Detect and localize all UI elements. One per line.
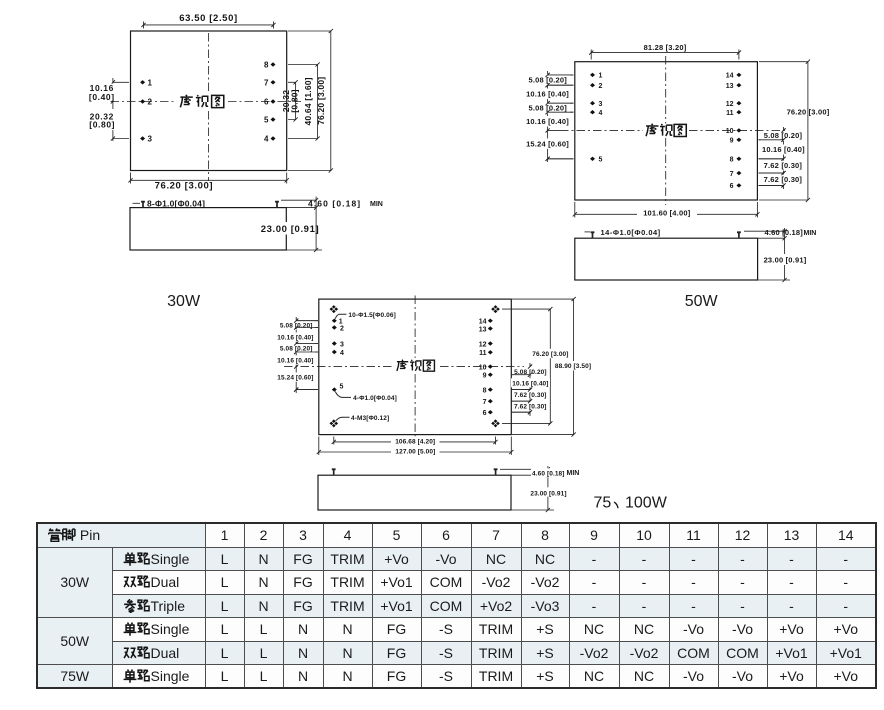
svg-text:76.20 [3.00]: 76.20 [3.00] — [316, 77, 326, 125]
svg-text:4: 4 — [264, 135, 269, 144]
svg-text:5.08 [0.20]: 5.08 [0.20] — [528, 75, 567, 84]
svg-text:88.90 [3.50]: 88.90 [3.50] — [555, 363, 591, 370]
75W pin 11 — [479, 350, 493, 357]
svg-text:11: 11 — [726, 110, 734, 117]
svg-text:10.16 [0.40]: 10.16 [0.40] — [526, 117, 569, 126]
30W pin 5 — [264, 116, 275, 125]
svg-text:5.08 [0.20]: 5.08 [0.20] — [764, 131, 803, 140]
75W side dim 23.00 — [529, 487, 570, 497]
75W left dim texts — [277, 320, 315, 329]
75W bottom dim text 106.68 — [391, 436, 440, 445]
75W side 4.60 dimension — [500, 466, 554, 510]
50W left dim texts — [524, 74, 570, 85]
75W pin 1 — [332, 319, 343, 326]
svg-text:4-Φ1.0[Φ0.04]: 4-Φ1.0[Φ0.04] — [353, 395, 397, 402]
svg-text:MIN: MIN — [804, 230, 817, 237]
30W vertical centerline — [208, 33, 210, 181]
50W right small dim texts — [761, 131, 806, 141]
50W right 76.20 bracket — [759, 62, 808, 200]
75W pin 12 — [479, 341, 493, 348]
30W right inner bracket 20.32 — [288, 82, 296, 119]
75W corner screw bottom-right — [491, 419, 500, 427]
svg-text:7.62 [0.30]: 7.62 [0.30] — [514, 404, 547, 411]
svg-text:9: 9 — [483, 373, 487, 380]
30W side view 4.60 dimension lines — [281, 197, 322, 251]
svg-text:10: 10 — [726, 128, 734, 135]
svg-text:12: 12 — [726, 101, 734, 108]
75W bottom dimension 127.00 — [319, 437, 512, 456]
50W pin 7 — [730, 171, 742, 178]
svg-text:8: 8 — [730, 157, 734, 164]
75W corner screw top-right — [491, 305, 500, 313]
svg-text:100W: 100W — [625, 495, 668, 512]
75W side pin right — [494, 469, 498, 474]
50W bottom-view body outline — [575, 62, 758, 200]
75/100W label — [594, 495, 668, 512]
30W right middle bracket 40.64 — [288, 65, 318, 139]
50W bottom dim text 101.60 — [637, 207, 697, 218]
svg-text:5.08 [0.20]: 5.08 [0.20] — [280, 323, 313, 330]
svg-text:6: 6 — [264, 98, 269, 107]
svg-text:4.60 [0.18]: 4.60 [0.18] — [532, 470, 565, 477]
75W right 88.90 bracket (full body) — [512, 299, 574, 435]
75W pin 6 — [483, 410, 493, 417]
30W horizontal centerline — [111, 101, 302, 103]
svg-text:4.60 [0.18]: 4.60 [0.18] — [765, 228, 804, 237]
75W leader pin5 callout — [335, 392, 351, 398]
30W right outer bracket 76.20 — [288, 31, 331, 171]
svg-text:2: 2 — [599, 83, 603, 90]
svg-text:106.68 [4.20]: 106.68 [4.20] — [395, 439, 435, 446]
30W left dimension bracket — [112, 78, 114, 141]
svg-text:3: 3 — [340, 341, 344, 348]
75W bottom dim text 127.00 — [391, 446, 440, 455]
75W bottom dimension 106.68 — [334, 437, 496, 445]
30W pin 2 — [140, 98, 152, 107]
svg-text:7: 7 — [264, 78, 269, 87]
50W pin 2 — [590, 83, 603, 90]
30W top dimension line — [144, 24, 274, 26]
75W view title 底视图 — [397, 360, 435, 372]
75W pin 2 — [332, 325, 344, 332]
svg-text:5: 5 — [599, 157, 603, 164]
50W pin 9 — [730, 138, 742, 145]
svg-text:1: 1 — [148, 78, 153, 87]
svg-text:10.16 [0.40]: 10.16 [0.40] — [762, 145, 805, 154]
30W pin 1 — [140, 78, 152, 87]
svg-text:13: 13 — [479, 326, 487, 333]
svg-text:127.00 [5.00]: 127.00 [5.00] — [395, 448, 435, 455]
svg-text:10.16 [0.40]: 10.16 [0.40] — [526, 89, 569, 98]
svg-text:76.20 [3.00]: 76.20 [3.00] — [787, 108, 830, 117]
30W pin 3 — [140, 135, 152, 144]
75W right small dim texts — [513, 367, 549, 376]
75W pin 5 — [332, 384, 344, 392]
75W leader pin1 callout — [335, 314, 346, 318]
75W side pin left — [332, 469, 336, 474]
75W right small dims extension lines — [511, 375, 530, 413]
svg-text:3: 3 — [599, 101, 603, 108]
30W side leader dash — [133, 202, 141, 204]
30W side pin right — [275, 202, 279, 207]
svg-text:14: 14 — [479, 319, 487, 326]
50W side dim 23.00 — [761, 254, 809, 265]
30W bottom-view body outline — [131, 31, 287, 171]
30W top dimension 63.50 extension lines — [144, 22, 274, 29]
75W pin 13 — [479, 326, 493, 333]
75W side dim 4.60 MIN — [531, 468, 567, 477]
svg-text:5: 5 — [264, 116, 269, 125]
50W side leader dash — [585, 231, 591, 233]
30W side-view body outline — [130, 208, 286, 250]
50W side-view body outline — [575, 238, 758, 280]
svg-text:4: 4 — [340, 350, 344, 357]
svg-text:23.00 [0.91]: 23.00 [0.91] — [261, 224, 319, 235]
svg-text:3: 3 — [148, 135, 153, 144]
50W vertical centerline — [665, 56, 667, 205]
svg-text:7: 7 — [483, 399, 487, 406]
30W pin 4 — [264, 135, 275, 144]
75W right dim 88.90 — [553, 361, 593, 370]
svg-text:7.62 [0.30]: 7.62 [0.30] — [764, 161, 803, 170]
svg-text:10.16 [0.40]: 10.16 [0.40] — [512, 380, 548, 387]
50W pin 10 — [726, 128, 742, 135]
50W pin 8 — [730, 157, 742, 164]
30W pin 8 — [264, 61, 275, 70]
50W left dimension bracket — [547, 71, 549, 162]
50W pin 1 — [590, 73, 603, 80]
svg-text:40.64 [1.60]: 40.64 [1.60] — [303, 77, 313, 125]
svg-text:10.16 [0.40]: 10.16 [0.40] — [277, 358, 313, 365]
svg-text:[0.80]: [0.80] — [290, 89, 300, 112]
svg-text:15.24 [0.60]: 15.24 [0.60] — [526, 139, 569, 148]
svg-text:15.24 [0.60]: 15.24 [0.60] — [277, 375, 313, 382]
75W leader bottom screw callout — [336, 417, 350, 421]
50W left extension lines — [548, 75, 574, 159]
75W corner screw top-left — [330, 305, 339, 313]
50W pin 14 — [726, 73, 742, 80]
svg-text:MIN: MIN — [567, 470, 580, 477]
svg-text:[0.40]: [0.40] — [89, 92, 115, 102]
75W right 76.20 bracket (between screws) — [502, 309, 550, 423]
75W corner screw bottom-left — [330, 419, 339, 427]
svg-text:2: 2 — [340, 325, 344, 332]
svg-text:9: 9 — [730, 138, 734, 145]
svg-text:12: 12 — [479, 341, 487, 348]
svg-text:4: 4 — [599, 110, 603, 117]
50W view title 底视图 — [646, 124, 686, 137]
50W pin 5 — [590, 157, 603, 164]
30W left extension lines pin1/pin3 — [113, 82, 129, 138]
75W left extension lines — [296, 321, 318, 390]
svg-text:8: 8 — [264, 61, 269, 70]
svg-text:7.62 [0.30]: 7.62 [0.30] — [514, 392, 547, 399]
30W side dim 23.00 — [259, 222, 319, 235]
75W pin 10 — [479, 364, 493, 371]
svg-text:10-Φ1.5[Φ0.06]: 10-Φ1.5[Φ0.06] — [348, 312, 395, 319]
75W bottom-view body outline — [319, 299, 512, 435]
75W pin 7 — [483, 399, 493, 406]
svg-text:10.16 [0.40]: 10.16 [0.40] — [277, 335, 313, 342]
50W bottom dimension 101.60 — [575, 202, 758, 218]
svg-text:8: 8 — [483, 388, 487, 395]
svg-text:7: 7 — [730, 171, 734, 178]
50W pin 4 — [590, 110, 603, 117]
50W side 4.60 dimension — [744, 228, 790, 280]
svg-text:1: 1 — [599, 73, 603, 80]
50W pin 3 — [590, 101, 603, 108]
svg-text:23.00 [0.91]: 23.00 [0.91] — [764, 255, 807, 264]
30W view title 底视图 — [180, 95, 223, 108]
svg-text:76.20 [3.00]: 76.20 [3.00] — [155, 180, 213, 191]
75W vertical centerline — [414, 296, 416, 439]
svg-text:63.50 [2.50]: 63.50 [2.50] — [179, 13, 237, 24]
svg-text:MIN: MIN — [370, 201, 383, 208]
svg-text:5: 5 — [340, 384, 344, 391]
50W pin 13 — [726, 83, 742, 90]
75W right dim 76.20 — [531, 349, 570, 358]
svg-text:101.60 [4.00]: 101.60 [4.00] — [643, 208, 691, 217]
30W bottom dimension 76.20 — [131, 173, 287, 184]
svg-text:76.20 [3.00]: 76.20 [3.00] — [532, 351, 568, 358]
svg-text:23.00 [0.91]: 23.00 [0.91] — [530, 490, 566, 497]
75W left dimension bracket — [295, 317, 297, 393]
svg-text:2: 2 — [148, 98, 153, 107]
svg-text:7.62 [0.30]: 7.62 [0.30] — [764, 175, 803, 184]
50W side pin right — [737, 232, 741, 237]
75W horizontal centerline — [284, 366, 524, 368]
svg-text:[0.80]: [0.80] — [89, 119, 115, 129]
svg-text:6: 6 — [483, 410, 487, 417]
50W pin 11 — [726, 110, 741, 117]
75W pin 8 — [483, 387, 493, 394]
re-stroked extension lines over dim label backgrounds — [294, 73, 786, 415]
75W pin 4 — [332, 350, 344, 357]
pin assignment table — [36, 522, 877, 689]
50W horizontal centerline — [560, 129, 786, 131]
svg-text:8-Φ1.0[Φ0.04]: 8-Φ1.0[Φ0.04] — [147, 198, 205, 208]
50W top dimension 81.28 — [591, 50, 739, 60]
50W side pin left — [591, 232, 595, 237]
svg-text:81.28 [3.20]: 81.28 [3.20] — [644, 43, 687, 52]
75W pin 9 — [483, 373, 493, 380]
75W pin 14 — [479, 319, 493, 326]
75W right small dims bracket — [529, 363, 531, 416]
50W right small dims bracket — [783, 127, 785, 189]
30W dim text 20.32/0.80 — [88, 112, 117, 130]
svg-text:14: 14 — [726, 73, 734, 80]
50W pin 6 — [730, 183, 742, 190]
svg-text:4-M3[Φ0.12]: 4-M3[Φ0.12] — [351, 415, 389, 422]
svg-text:6: 6 — [730, 183, 734, 190]
30W pin 6 — [264, 98, 275, 107]
svg-text:11: 11 — [479, 350, 487, 357]
30W dim text 10.16/0.40 — [88, 83, 117, 102]
75W pin 3 — [332, 341, 344, 348]
svg-text:30W: 30W — [167, 293, 201, 310]
svg-text:13: 13 — [726, 83, 734, 90]
svg-text:75: 75 — [594, 495, 612, 512]
50W pin 12 — [726, 101, 742, 108]
svg-text:14-Φ1.0[Φ0.04]: 14-Φ1.0[Φ0.04] — [601, 228, 661, 237]
svg-text:50W: 50W — [685, 293, 719, 310]
50W right small dims extension lines — [759, 140, 784, 186]
75W side-view body outline — [318, 475, 511, 510]
30W side pin left — [141, 202, 145, 207]
svg-text:4.60 [0.18]: 4.60 [0.18] — [308, 199, 361, 209]
30W pin 7 — [264, 78, 275, 87]
svg-text:10: 10 — [479, 365, 487, 372]
